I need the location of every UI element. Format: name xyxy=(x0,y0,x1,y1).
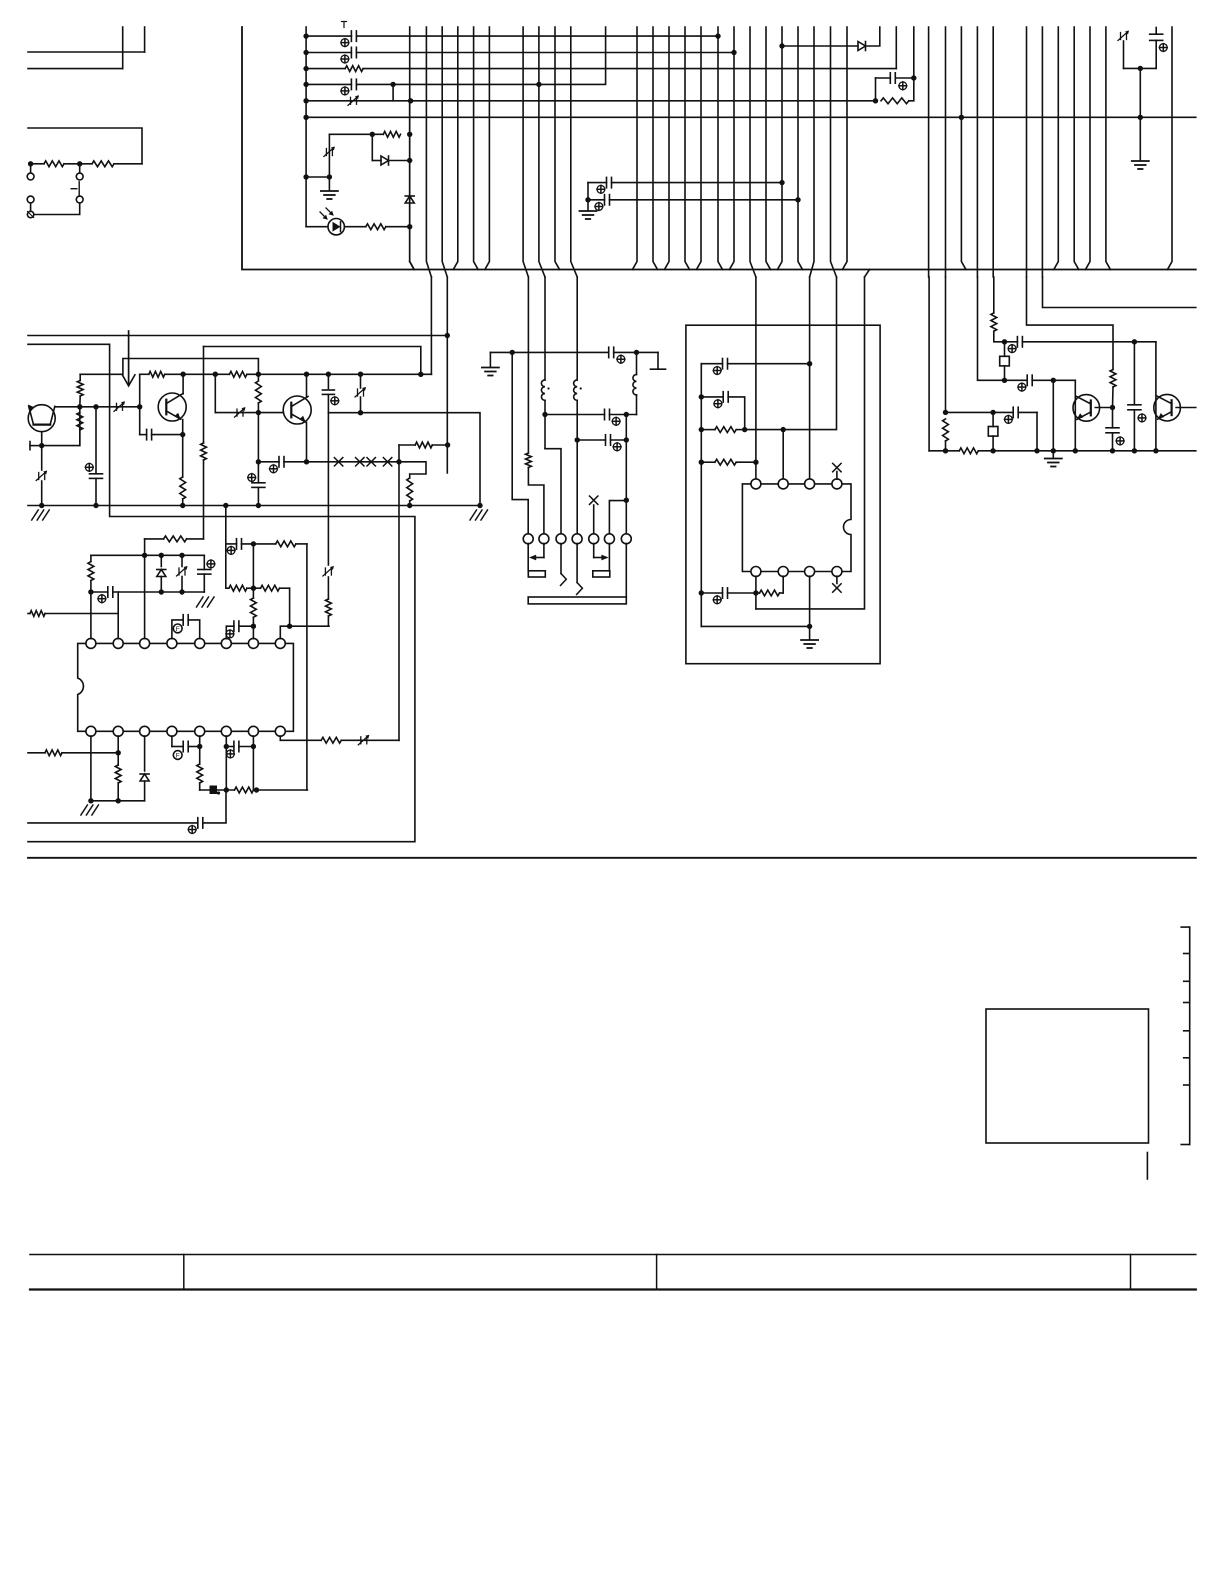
wire bus drop t13 xyxy=(778,27,783,270)
table top line xyxy=(30,1254,1196,1256)
cut mark u2 top xyxy=(833,463,841,471)
wire head rail gnd stub xyxy=(489,352,491,366)
ruler tick 6 xyxy=(1184,1057,1190,1059)
wire line5 xyxy=(306,100,875,102)
ic U1 pin 4 top xyxy=(167,638,177,648)
capacitor C23 xyxy=(605,409,610,419)
terminal S1-1 xyxy=(27,173,34,180)
wire led out2 xyxy=(386,226,410,228)
wire bus drop t8 xyxy=(685,27,690,270)
capacitor C15 xyxy=(198,555,211,592)
contact bracket right xyxy=(593,571,610,577)
wire rail main xyxy=(28,505,480,507)
ic U1 pin 5 top xyxy=(195,638,205,648)
zener D8 xyxy=(36,471,47,481)
ic U1 pin 14 bottom xyxy=(140,726,150,736)
wire r w993 tail xyxy=(994,331,1005,342)
ground zc xyxy=(1132,161,1149,169)
node feed trunk xyxy=(303,98,308,103)
wire u2 pin2 riser xyxy=(782,430,784,480)
wire bus drop t9 xyxy=(697,27,702,270)
wire u1p7 riser xyxy=(252,544,254,639)
node capline2 end xyxy=(624,437,629,442)
wire u1 net740 xyxy=(280,739,399,741)
node u1 crow b xyxy=(179,589,184,594)
capacitor C9 polarity xyxy=(85,463,93,471)
diode D2 xyxy=(858,42,866,51)
capacitor C25 polarity xyxy=(713,367,721,375)
wire bus drop u2 xyxy=(865,270,870,278)
svg-text:F: F xyxy=(176,753,180,760)
wire r capline412 xyxy=(946,411,1038,413)
connector pin 2 xyxy=(539,534,549,544)
wire q3 emitter xyxy=(306,423,308,462)
wire head w545 xyxy=(544,277,546,380)
wire q1 base drop xyxy=(139,374,141,407)
wire riser 409 xyxy=(410,101,414,270)
wire q2 emitter xyxy=(182,420,184,435)
resistor R32 xyxy=(959,448,978,454)
wire switch row xyxy=(31,163,142,165)
wire u2 caprow2b xyxy=(728,397,745,430)
ic U2 pin 5 bottom xyxy=(832,567,842,577)
table bottom line xyxy=(30,1288,1196,1290)
node led top a xyxy=(370,132,375,137)
capacitor C27 xyxy=(723,588,728,598)
node u1p7 cap xyxy=(251,624,256,629)
node u2 w755 tap xyxy=(753,460,758,465)
wire net588 drop xyxy=(289,588,291,626)
ic U1 pin 11 bottom xyxy=(221,726,231,736)
wire bus drop t6 xyxy=(653,27,658,270)
wire bus drop t16 xyxy=(961,27,966,270)
wire gnd stub xyxy=(328,177,330,190)
node line335 end xyxy=(445,333,450,338)
node u2 caprow3 xyxy=(753,590,758,595)
table divider 3 xyxy=(1130,1255,1132,1290)
wire bus through c9 xyxy=(945,27,947,277)
wire bus drop t18 xyxy=(1074,27,1079,270)
wire q2 collector riser xyxy=(182,374,184,394)
ic U1 pin 16 bottom xyxy=(86,726,96,736)
wire pin6 down xyxy=(608,544,610,571)
wire line y346 xyxy=(204,347,421,375)
wire zc drop2 xyxy=(1139,117,1141,160)
wire r line tail xyxy=(432,444,447,446)
wire zen drop 360 xyxy=(360,374,362,413)
wire top-left horizontal lower xyxy=(28,68,123,70)
led arrows xyxy=(320,208,334,220)
ic U2 pin 4 top xyxy=(832,479,842,489)
wire u1p2b line xyxy=(28,752,118,754)
capacitor C13 polarity xyxy=(331,397,339,405)
wire u2 caprow1 xyxy=(701,363,722,365)
wire capgnd stub xyxy=(587,200,589,210)
wire u1p10 drop xyxy=(252,736,254,790)
capacitor C24 xyxy=(606,435,611,445)
resistor R27 xyxy=(526,453,532,468)
wire switch bottom link xyxy=(34,203,80,215)
node r capline412 xyxy=(990,410,995,415)
wire base2 row xyxy=(215,412,283,414)
capacitor C6 polarity xyxy=(595,203,603,211)
capacitor C14 xyxy=(108,587,113,597)
node q2 emitter xyxy=(180,432,185,437)
wire v203 tail xyxy=(203,460,205,539)
wire pin3 down xyxy=(560,544,562,574)
arrow right xyxy=(594,555,609,561)
wire bus drop t11 xyxy=(730,27,735,270)
node diode out xyxy=(407,158,412,163)
wire r w929 xyxy=(928,277,930,451)
capacitor C1 polarity xyxy=(341,39,349,47)
ic U2 pin 8 bottom xyxy=(751,567,761,577)
wire bus drop t2 xyxy=(474,27,479,270)
node x row end xyxy=(396,459,401,464)
capacitor C27 polarity xyxy=(713,596,721,604)
wire bus drop t21 xyxy=(1168,27,1173,270)
resistor R28 xyxy=(701,427,744,433)
cut mark x2 xyxy=(356,458,364,466)
node head rail a xyxy=(510,350,515,355)
ground chassis q1 xyxy=(32,510,50,520)
wire diode line xyxy=(782,45,858,47)
zener D15 xyxy=(140,774,149,781)
capacitor C4 polarity xyxy=(899,82,907,90)
capacitor C26 xyxy=(723,392,728,402)
wire line6 xyxy=(306,116,1196,118)
wire stub left contact xyxy=(30,164,32,173)
zener D13 xyxy=(323,566,334,576)
testpoint F2 xyxy=(173,751,182,760)
ic U1 pin 7 top xyxy=(248,638,258,648)
node u1 row a xyxy=(159,553,164,558)
wire rc cap row xyxy=(876,77,914,79)
wire u2 pin5 stub xyxy=(836,576,838,583)
node p12 cap xyxy=(197,744,202,749)
node net800 b xyxy=(116,798,121,803)
wire switch bottom xyxy=(30,203,32,215)
ic U1 pin 12 bottom xyxy=(195,726,205,736)
wire u2 gnd row xyxy=(701,625,809,627)
transistor Q4 xyxy=(1073,395,1100,422)
wire u2 pin4 stub xyxy=(836,472,838,480)
wire pin6 elbow xyxy=(609,501,626,534)
capacitor C9 xyxy=(90,407,103,506)
capacitor C7 polarity xyxy=(1159,44,1167,52)
node head rail b xyxy=(634,350,639,355)
wire u1 cap row xyxy=(91,591,204,593)
wire capgnd left xyxy=(587,183,589,200)
node r base1 xyxy=(1110,405,1115,410)
wire Q1 emitter xyxy=(41,432,43,446)
ic U1 pin 15 bottom xyxy=(113,726,123,736)
capacitor C5 xyxy=(607,177,612,187)
ic U2 pin 3 top xyxy=(805,479,815,489)
ic U1 pin 13 bottom xyxy=(167,726,177,736)
node capgnd top end xyxy=(779,180,784,185)
wire cap drop 328 xyxy=(322,374,334,413)
wire r w1134 tail xyxy=(1133,410,1135,451)
resistor R3 xyxy=(383,131,400,137)
resistor R17 xyxy=(251,598,257,617)
node 258 gnd xyxy=(256,503,261,508)
capacitor C30 polarity xyxy=(1008,345,1016,353)
switch lever b xyxy=(577,583,583,595)
zener D12 xyxy=(177,555,188,592)
ic U1 pin 3 top xyxy=(140,638,150,648)
capacitor C17 xyxy=(226,621,253,631)
node r rail 1075 xyxy=(1073,448,1078,453)
node railB drop1 xyxy=(213,372,218,377)
ic U1 pin 8 top xyxy=(275,638,285,648)
wire bus drop t4 xyxy=(555,27,560,270)
wire zener branch xyxy=(328,134,330,177)
wire u2 w836 xyxy=(745,277,837,430)
terminal S1-4 xyxy=(76,196,83,203)
wire railB riser xyxy=(430,277,432,374)
node r rail 1155 xyxy=(1153,448,1158,453)
terminal S1-3 xyxy=(27,196,34,203)
wire r w993 xyxy=(993,277,995,313)
wire u1p4 link xyxy=(172,620,183,639)
node line5 end xyxy=(873,98,878,103)
node line4 tap b xyxy=(536,82,541,87)
capacitor C2 xyxy=(351,47,356,57)
coil L1 xyxy=(541,380,549,400)
node q1 gnd xyxy=(39,503,44,508)
node r rail 1053 xyxy=(1051,448,1056,453)
wire stub mid contact xyxy=(79,164,81,173)
ruler tick 7 xyxy=(1184,1084,1190,1086)
capacitor C32 polarity xyxy=(1116,437,1124,445)
wire line y413 xyxy=(328,413,480,506)
zener D3 xyxy=(324,147,335,157)
cut mark x4 xyxy=(383,458,391,466)
wire diode line end xyxy=(866,27,880,46)
wire rc right xyxy=(909,78,914,101)
wire u1 net790 xyxy=(200,789,308,791)
wire w626 xyxy=(625,415,627,535)
wire u1p5 drop xyxy=(188,620,200,639)
node u1p7 mid xyxy=(251,586,256,591)
resistor R23 xyxy=(197,747,203,791)
node u1 crow a xyxy=(159,589,164,594)
wire r w977 drop xyxy=(1074,380,1076,451)
node c9 gnd xyxy=(93,503,98,508)
capacitor C5 polarity xyxy=(597,185,605,193)
capacitor C6 xyxy=(605,195,610,205)
wire bus drop t3 xyxy=(485,27,490,270)
wire top-left vertical a xyxy=(122,27,124,69)
wire u1 539 row xyxy=(145,538,204,540)
wire head w577 tail xyxy=(576,400,578,534)
resistor R102 xyxy=(92,161,114,167)
wire pin2 down xyxy=(543,544,545,558)
wire r w1026 xyxy=(1027,277,1114,370)
resistor R22 xyxy=(321,737,341,743)
wire bus drop t12 xyxy=(766,27,771,270)
wire u1 net800 xyxy=(91,800,145,802)
node line6 tap a xyxy=(959,115,964,120)
wire bus through c5 xyxy=(750,27,756,277)
cut mark x1 xyxy=(334,458,342,466)
capacitor C20 xyxy=(172,736,200,752)
node r 1134 a xyxy=(1132,339,1137,344)
resistor R101 xyxy=(44,161,64,167)
wire staircase xyxy=(399,462,426,478)
wire trunk-gnd link xyxy=(306,176,329,178)
mech plate xyxy=(528,597,626,604)
wire q2 emitter res xyxy=(182,435,184,477)
node u2 gnd row xyxy=(807,624,812,629)
resistor R7 xyxy=(149,371,165,377)
node p10 cap xyxy=(251,744,256,749)
wire u1p15 drop xyxy=(90,736,92,801)
node w545 cap xyxy=(542,412,547,417)
resistor R31 xyxy=(943,419,949,451)
wire v399 upper xyxy=(398,445,400,462)
wire rail segA xyxy=(80,359,258,375)
node w626 a xyxy=(624,498,629,503)
ic U1 pin 10 bottom xyxy=(248,726,258,736)
connector pin 6 xyxy=(604,534,614,544)
node u2 lc d xyxy=(699,590,704,595)
capacitor C32 xyxy=(1106,408,1119,451)
wire bus through c7 xyxy=(831,27,837,277)
wire bus through c3 xyxy=(539,27,545,277)
wire head w512 xyxy=(512,352,528,534)
node line6 tap b xyxy=(1138,115,1143,120)
capacitor C12 polarity xyxy=(270,465,278,473)
wire r w977 xyxy=(978,277,1076,380)
ruler tick 2 xyxy=(1184,953,1190,955)
node r rail 1112 xyxy=(1110,448,1115,453)
mark stub xyxy=(1146,1153,1148,1180)
led PD1 xyxy=(328,219,344,235)
node zc mid xyxy=(1138,66,1143,71)
wire u2 pin7 drop xyxy=(782,576,784,593)
resistor R15 xyxy=(30,611,45,617)
arrow signal flow xyxy=(122,331,135,386)
wire r capline341 xyxy=(1005,341,1156,343)
terminal S1-2 xyxy=(76,173,83,180)
svg-text:F: F xyxy=(176,626,180,633)
wire u2 caprow3b xyxy=(728,592,756,594)
node q1row c xyxy=(137,404,142,409)
node w577 cap xyxy=(575,437,580,442)
capacitor C11 xyxy=(252,462,265,506)
ruler tick 3 xyxy=(1184,980,1190,982)
capacitor C19 polarity xyxy=(227,750,235,758)
zener D10 xyxy=(355,387,366,397)
capacitor C28 xyxy=(1013,407,1018,417)
wire staircase tail xyxy=(409,501,411,506)
resistor R11 xyxy=(407,478,413,501)
capacitor C29 polarity xyxy=(1018,383,1026,391)
wire u2 pin8 drop xyxy=(755,576,757,609)
wire head w528 xyxy=(527,277,529,453)
resistor R26 xyxy=(115,765,121,801)
resistor R24 xyxy=(235,787,254,793)
node u2 rrow1 b xyxy=(781,427,786,432)
resistor R14 xyxy=(88,562,94,581)
node p14 xyxy=(116,750,121,755)
capacitor C1 xyxy=(351,31,356,41)
node railB d420 xyxy=(418,372,423,377)
ruler tick 5 xyxy=(1184,1030,1190,1032)
wire q1 emitter gnd xyxy=(41,481,43,506)
node capline1 tap xyxy=(624,412,629,417)
node net790 a xyxy=(224,787,229,792)
capacitor C24 polarity xyxy=(613,443,621,451)
zener D1 xyxy=(348,95,359,105)
capacitor C21 polarity xyxy=(188,826,196,834)
wire u1p13 tail xyxy=(144,781,146,801)
wire bus drop t17 xyxy=(1054,27,1059,270)
switch lever a xyxy=(561,574,567,586)
capacitor C4 xyxy=(890,73,895,83)
node r line end xyxy=(445,442,450,447)
testpoint F1 xyxy=(173,624,182,633)
wire u2 leftcol xyxy=(700,364,702,627)
resistor R18 xyxy=(276,541,296,547)
wire u2 w864 xyxy=(756,277,865,609)
node led top b xyxy=(407,132,412,137)
wire drop 258 xyxy=(257,374,259,380)
wire u1p14 drop xyxy=(117,736,119,765)
wire bus through c2 xyxy=(523,27,528,277)
node u1 row b xyxy=(179,553,184,558)
wire q5 base xyxy=(1176,407,1196,409)
wire wire447 below xyxy=(446,277,448,473)
transistor Q5 xyxy=(1154,394,1181,421)
bus main corner xyxy=(242,27,1196,270)
resistor R29 xyxy=(701,459,756,465)
terminator bar xyxy=(651,368,666,370)
node u1p3 xyxy=(142,553,147,558)
wire u1p2 line xyxy=(28,613,118,615)
node line5 tap xyxy=(408,98,413,103)
wire r w1042 xyxy=(1043,277,1196,308)
wire bus through c4 xyxy=(571,27,577,277)
resistor R13 xyxy=(201,443,207,460)
wire r rail xyxy=(929,450,1196,452)
wire v329 xyxy=(327,413,329,565)
node u2 rrow1 a xyxy=(742,427,747,432)
wire pin7 down xyxy=(625,544,627,597)
wire bus drop t0 xyxy=(410,27,415,270)
node q1row a xyxy=(77,404,82,409)
connector pin 5 xyxy=(589,534,599,544)
table divider 2 xyxy=(656,1255,658,1290)
transistor Q1 xyxy=(28,405,55,432)
connector pin 1 xyxy=(523,534,533,544)
ic U2 pin 7 bottom xyxy=(778,567,788,577)
capacitor C7 xyxy=(1150,28,1163,69)
resistor R25 xyxy=(45,750,62,756)
wire u1p11 drop xyxy=(225,736,227,790)
node p11 cap xyxy=(224,744,229,749)
connector pin 7 xyxy=(621,534,631,544)
wire bus stub 896 xyxy=(895,27,897,69)
node q1row b xyxy=(93,404,98,409)
wire top-left horizontal upper xyxy=(28,51,145,53)
wire line1 xyxy=(306,35,718,37)
wire diode branch xyxy=(371,134,373,160)
wire led block top xyxy=(329,133,383,135)
wire r w1155 xyxy=(1155,342,1157,451)
